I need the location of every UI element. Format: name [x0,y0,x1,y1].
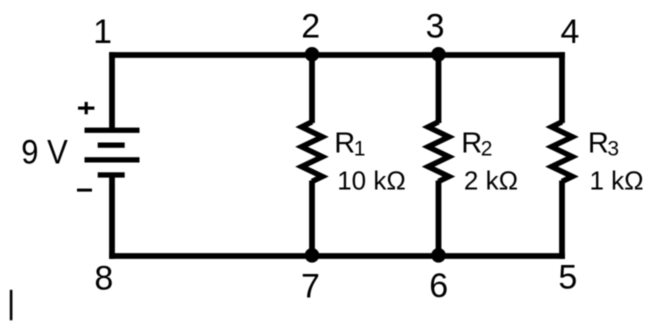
wire: bottom bus from node 8 to node 5 [109,253,565,259]
battery + polarity marker [78,102,94,114]
svg-text:5: 5 [558,259,577,297]
battery - polarity marker [77,189,92,192]
resistor R1 [302,122,323,182]
svg-text:R3: R3 [588,128,619,161]
svg-text:9 V: 9 V [21,133,68,171]
svg-text:10 kΩ: 10 kΩ [337,166,406,196]
node 6 junction dot [431,248,446,263]
battery V1 9 V [85,128,140,178]
svg-text:R1: R1 [334,128,365,161]
svg-text:2 kΩ: 2 kΩ [464,166,518,196]
resistor R2 [428,122,449,182]
wire: R1 down to node 7 [309,181,315,257]
wire: left rail node 1 down to battery + plate [109,52,115,130]
svg-text:1 kΩ: 1 kΩ [590,166,644,196]
wire: branch from node 2 down to R1 [309,55,315,123]
wire: branch from node 3 down to R2 [436,55,442,123]
svg-text:6: 6 [429,267,448,305]
resistor R3 [552,122,573,182]
node 2 junction dot [305,47,320,62]
svg-text:3: 3 [426,7,445,45]
node 7 junction dot [305,248,320,263]
svg-text:8: 8 [94,260,113,298]
wire: R3 down to node 5 [559,181,565,259]
svg-text:1: 1 [93,13,112,51]
wire: R2 down to node 6 [436,181,442,257]
wire: battery - terminal down to node 8 [109,174,115,259]
svg-text:2: 2 [301,7,320,45]
node 3 junction dot [431,47,446,62]
svg-text:7: 7 [301,267,320,305]
wire: top bus from node 1 to node 4 [109,52,565,58]
text cursor caret [10,290,13,321]
svg-text:4: 4 [561,13,580,51]
wire: right rail node 4 down to R3 [559,52,565,123]
svg-text:R2: R2 [461,128,492,161]
